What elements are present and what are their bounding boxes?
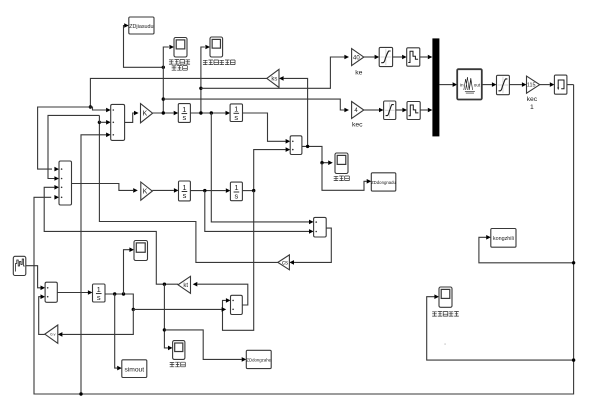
label: dynamic deflection xyxy=(334,176,350,181)
gain cs (damping, left-pointing) xyxy=(278,255,290,270)
node: junction road displacement to simout xyxy=(113,292,116,295)
svg-text:40: 40 xyxy=(353,55,360,61)
label: body vertical velocity xyxy=(203,60,235,65)
wire: gain K1 output to integrator 1 xyxy=(153,112,174,114)
node: junction acceleration/scope1 xyxy=(162,66,165,69)
node: junction dynamic deflection scope tap xyxy=(320,161,323,164)
wire: saturation3 to gain kec1 xyxy=(509,84,522,86)
node: junction kongzhili tap xyxy=(572,261,575,264)
wire: road noise source to sum F input 1 xyxy=(26,266,41,288)
svg-text:kec: kec xyxy=(527,96,538,103)
svg-text:115: 115 xyxy=(527,83,536,89)
node: junction integrator4 output xyxy=(252,189,255,192)
gain kec (=4) xyxy=(352,102,364,119)
wire: integrator4 output xyxy=(242,190,253,192)
svg-text:simout: simout xyxy=(124,366,144,373)
wire: sum E output to damper gain cs xyxy=(294,228,331,262)
svg-text:kt: kt xyxy=(183,283,188,289)
sum A (sprung mass force sum) xyxy=(111,104,125,140)
fuzzy logic controller In1/Out1 xyxy=(457,69,482,99)
wire: gain kec1 to memory block xyxy=(540,84,550,86)
wire: ks gain output to mass sums xyxy=(90,78,266,107)
wire: acceleration vertical to scope1 xyxy=(163,47,169,113)
wire: saturation2 to quantizer2 xyxy=(396,109,403,111)
wire: gain K2 output to integrator 3 xyxy=(152,189,174,191)
wire: damper force (cs output) distribution line xyxy=(99,122,277,262)
svg-text:ks: ks xyxy=(271,77,277,83)
wire: control force tap to scope (active force) xyxy=(427,297,574,360)
wire: sum F output to integrator 5 xyxy=(57,292,88,294)
wire: velocity line to gain ke xyxy=(201,57,345,88)
svg-text:ZDjiasudu: ZDjiasudu xyxy=(129,24,153,30)
node: junction road displacement to sum D xyxy=(132,308,135,311)
gain K2 (1/m wheel) xyxy=(141,182,153,200)
svg-text:K: K xyxy=(143,111,148,118)
node: junction sum C output to ks xyxy=(306,145,309,148)
node: junction velocity to sum E xyxy=(210,111,213,114)
integrator 5 (1/s, road) xyxy=(93,284,106,302)
wire: control force bottom bus xyxy=(34,85,574,394)
sum C (suspension deflection) xyxy=(290,136,302,155)
svg-text:s: s xyxy=(234,113,238,122)
wire: road displacement up to scope (unlabeled) xyxy=(124,250,130,294)
block simout (To Workspace) xyxy=(122,360,147,378)
node: junction dynamic load to workspace xyxy=(163,328,166,331)
node: junction road displacement to scope xyxy=(122,292,125,295)
node: junction velocity line xyxy=(199,87,202,90)
wire: integrator1 to integrator2 (velocity line) xyxy=(190,112,225,114)
sum D (tire deflection) xyxy=(231,295,243,314)
scope: body vertical velocity xyxy=(210,37,223,57)
integrator 4 (1/s) xyxy=(230,182,242,201)
node: junction control force to left riser xyxy=(79,392,82,395)
node: junction cs force at sum A input 2 xyxy=(98,121,101,124)
svg-text:kongzhili: kongzhili xyxy=(493,236,514,242)
svg-text:ZDdongnadu: ZDdongnadu xyxy=(371,180,396,185)
wire: gain40 ke output to saturation 1 xyxy=(364,56,375,58)
wire: velocity v1 down to sum E input 1 xyxy=(211,113,309,222)
svg-text:cs: cs xyxy=(282,261,288,267)
wire: kt output (tire force) to sum B input 3 xyxy=(44,187,178,284)
wire: mux output to fuzzy controller xyxy=(439,84,452,86)
wire: fuzzy controller to saturation 3 xyxy=(482,84,492,86)
scope: body vertical acceleration xyxy=(174,38,187,58)
wire: ZDjiasudu feed (acceleration tap up-left to To-Workspace) xyxy=(124,26,164,68)
wire: control force bus riser to sum A input 3 xyxy=(81,135,106,394)
wire: v2 down to sum E input 2 xyxy=(205,191,309,232)
scope: road displacement (unlabeled) xyxy=(134,241,148,261)
wire: dynamic load to ZDdongzahe workspace block xyxy=(164,330,241,360)
wire: cs force branch to sum B input 2 xyxy=(48,115,99,178)
gain K1 (1/m body) xyxy=(141,104,153,123)
wire: x2 loop down to sum D input 1 xyxy=(223,191,254,331)
wire: sum A output jog to gain K1 xyxy=(125,113,134,122)
gain road feedback (left-pointing) xyxy=(45,325,58,343)
svg-text:s: s xyxy=(235,192,239,201)
wire: road displacement to simout workspace block xyxy=(115,294,118,368)
node: junction acceleration tap xyxy=(162,111,165,114)
wire: velocity vertical to scope2 xyxy=(201,47,205,113)
sum F (road model sum) xyxy=(45,282,57,302)
wire: road displacement down to feedback gain input xyxy=(62,309,133,334)
quantizer 2 xyxy=(407,102,420,120)
wire: gain4 kec output to saturation 2 xyxy=(364,109,379,111)
stray faint dot annotation xyxy=(444,343,446,345)
node: junction tire force / dynamic load tap xyxy=(163,283,166,286)
svg-text:1: 1 xyxy=(530,104,534,111)
label: dynamic tire load xyxy=(170,362,186,367)
sum B (unsprung mass force sum) xyxy=(59,161,72,205)
svg-text:s: s xyxy=(182,113,186,122)
gain kec1 (=115) xyxy=(527,76,540,93)
wire: ks gain input from spring deflection (sum C output riser) xyxy=(284,78,308,146)
wire: integrator2 output to sum C input 1 xyxy=(243,113,286,141)
source: band-limited white noise (road input) xyxy=(13,256,25,275)
wire: integrator5 output (road displacement) xyxy=(105,294,133,309)
saturation 2 xyxy=(384,101,396,120)
svg-text:K: K xyxy=(143,189,148,196)
wire: ks force to sum B input 1 arrow xyxy=(54,167,59,172)
gain ke (=40) xyxy=(352,49,364,66)
wire: control force tap to kongzhili workspace xyxy=(479,237,574,262)
wire: road displacement to sum D input 2 xyxy=(133,308,221,310)
node: junction v2 tap xyxy=(203,189,206,192)
block ZDjiasudu (To Workspace) xyxy=(129,17,154,34)
sum E (relative velocity) xyxy=(314,217,327,237)
wire: deflection down to ZDdongnaodu workspace block xyxy=(322,163,367,191)
svg-text:out: out xyxy=(474,83,481,88)
wire: sum D output up to gain kt input xyxy=(197,284,248,305)
wire: road feedback gain output up to sum F input 2 xyxy=(39,297,45,335)
saturation 1 xyxy=(379,47,392,66)
svg-text:0.v: 0.v xyxy=(50,332,55,337)
svg-text:s: s xyxy=(97,293,101,302)
block kongzhili (To Workspace) xyxy=(491,229,516,248)
node: junction ks force xyxy=(89,105,92,108)
block ZDdongnaodu (To Workspace) xyxy=(371,173,396,191)
wire: integrator3 to integrator4 (velocity v2) xyxy=(190,190,225,192)
wire: quantizer2 to mux xyxy=(420,109,428,111)
scope: active control force xyxy=(439,287,452,307)
saturation 3 xyxy=(497,75,510,94)
scope: dynamic tire load xyxy=(173,341,185,360)
gain kt (tire stiffness, left-pointing) xyxy=(178,276,191,293)
node: junction acceleration to kec line xyxy=(162,97,165,100)
wire: sum C output to ks riser / scope taps xyxy=(302,146,328,162)
svg-text:ke: ke xyxy=(355,70,362,77)
block ZDdongzahe (To Workspace) xyxy=(246,350,271,368)
memory / hold block xyxy=(554,75,567,94)
wire: sum B output jog to gain K2 xyxy=(72,184,134,191)
wire: dynamic load branch down to scope xyxy=(164,284,168,348)
svg-text:ZDdongzahe: ZDdongzahe xyxy=(246,358,271,363)
svg-text:in: in xyxy=(460,83,464,88)
mux (black bar) xyxy=(432,38,439,136)
wire: cs force into sum A input 2 xyxy=(99,121,106,123)
wire: acceleration line to gain kec xyxy=(163,99,344,110)
wire: integrator4 output riser to sum C input 2 xyxy=(254,150,286,191)
scope: dynamic deflection xyxy=(335,153,348,174)
integrator 1 (1/s) xyxy=(178,104,190,123)
svg-text:kec: kec xyxy=(352,122,363,129)
quantizer 1 xyxy=(407,48,420,66)
integrator 3 (1/s) xyxy=(179,181,191,201)
node: junction velocity scope tap xyxy=(199,111,202,114)
label: active control force xyxy=(432,312,459,317)
label: body vertical acceleration xyxy=(169,60,190,65)
node: junction active-force scope tap xyxy=(572,358,575,361)
svg-text:s: s xyxy=(183,191,187,200)
wire: saturation1 to quantizer1 xyxy=(393,56,403,58)
gain ks (suspension stiffness, left-pointing) xyxy=(267,69,279,87)
wire: quantizer1 to mux xyxy=(420,56,428,58)
wire: ks force to sum A input 1 xyxy=(38,107,107,169)
wire: memory output to right-side control force bus xyxy=(567,84,574,86)
integrator 2 (1/s) xyxy=(230,104,242,122)
